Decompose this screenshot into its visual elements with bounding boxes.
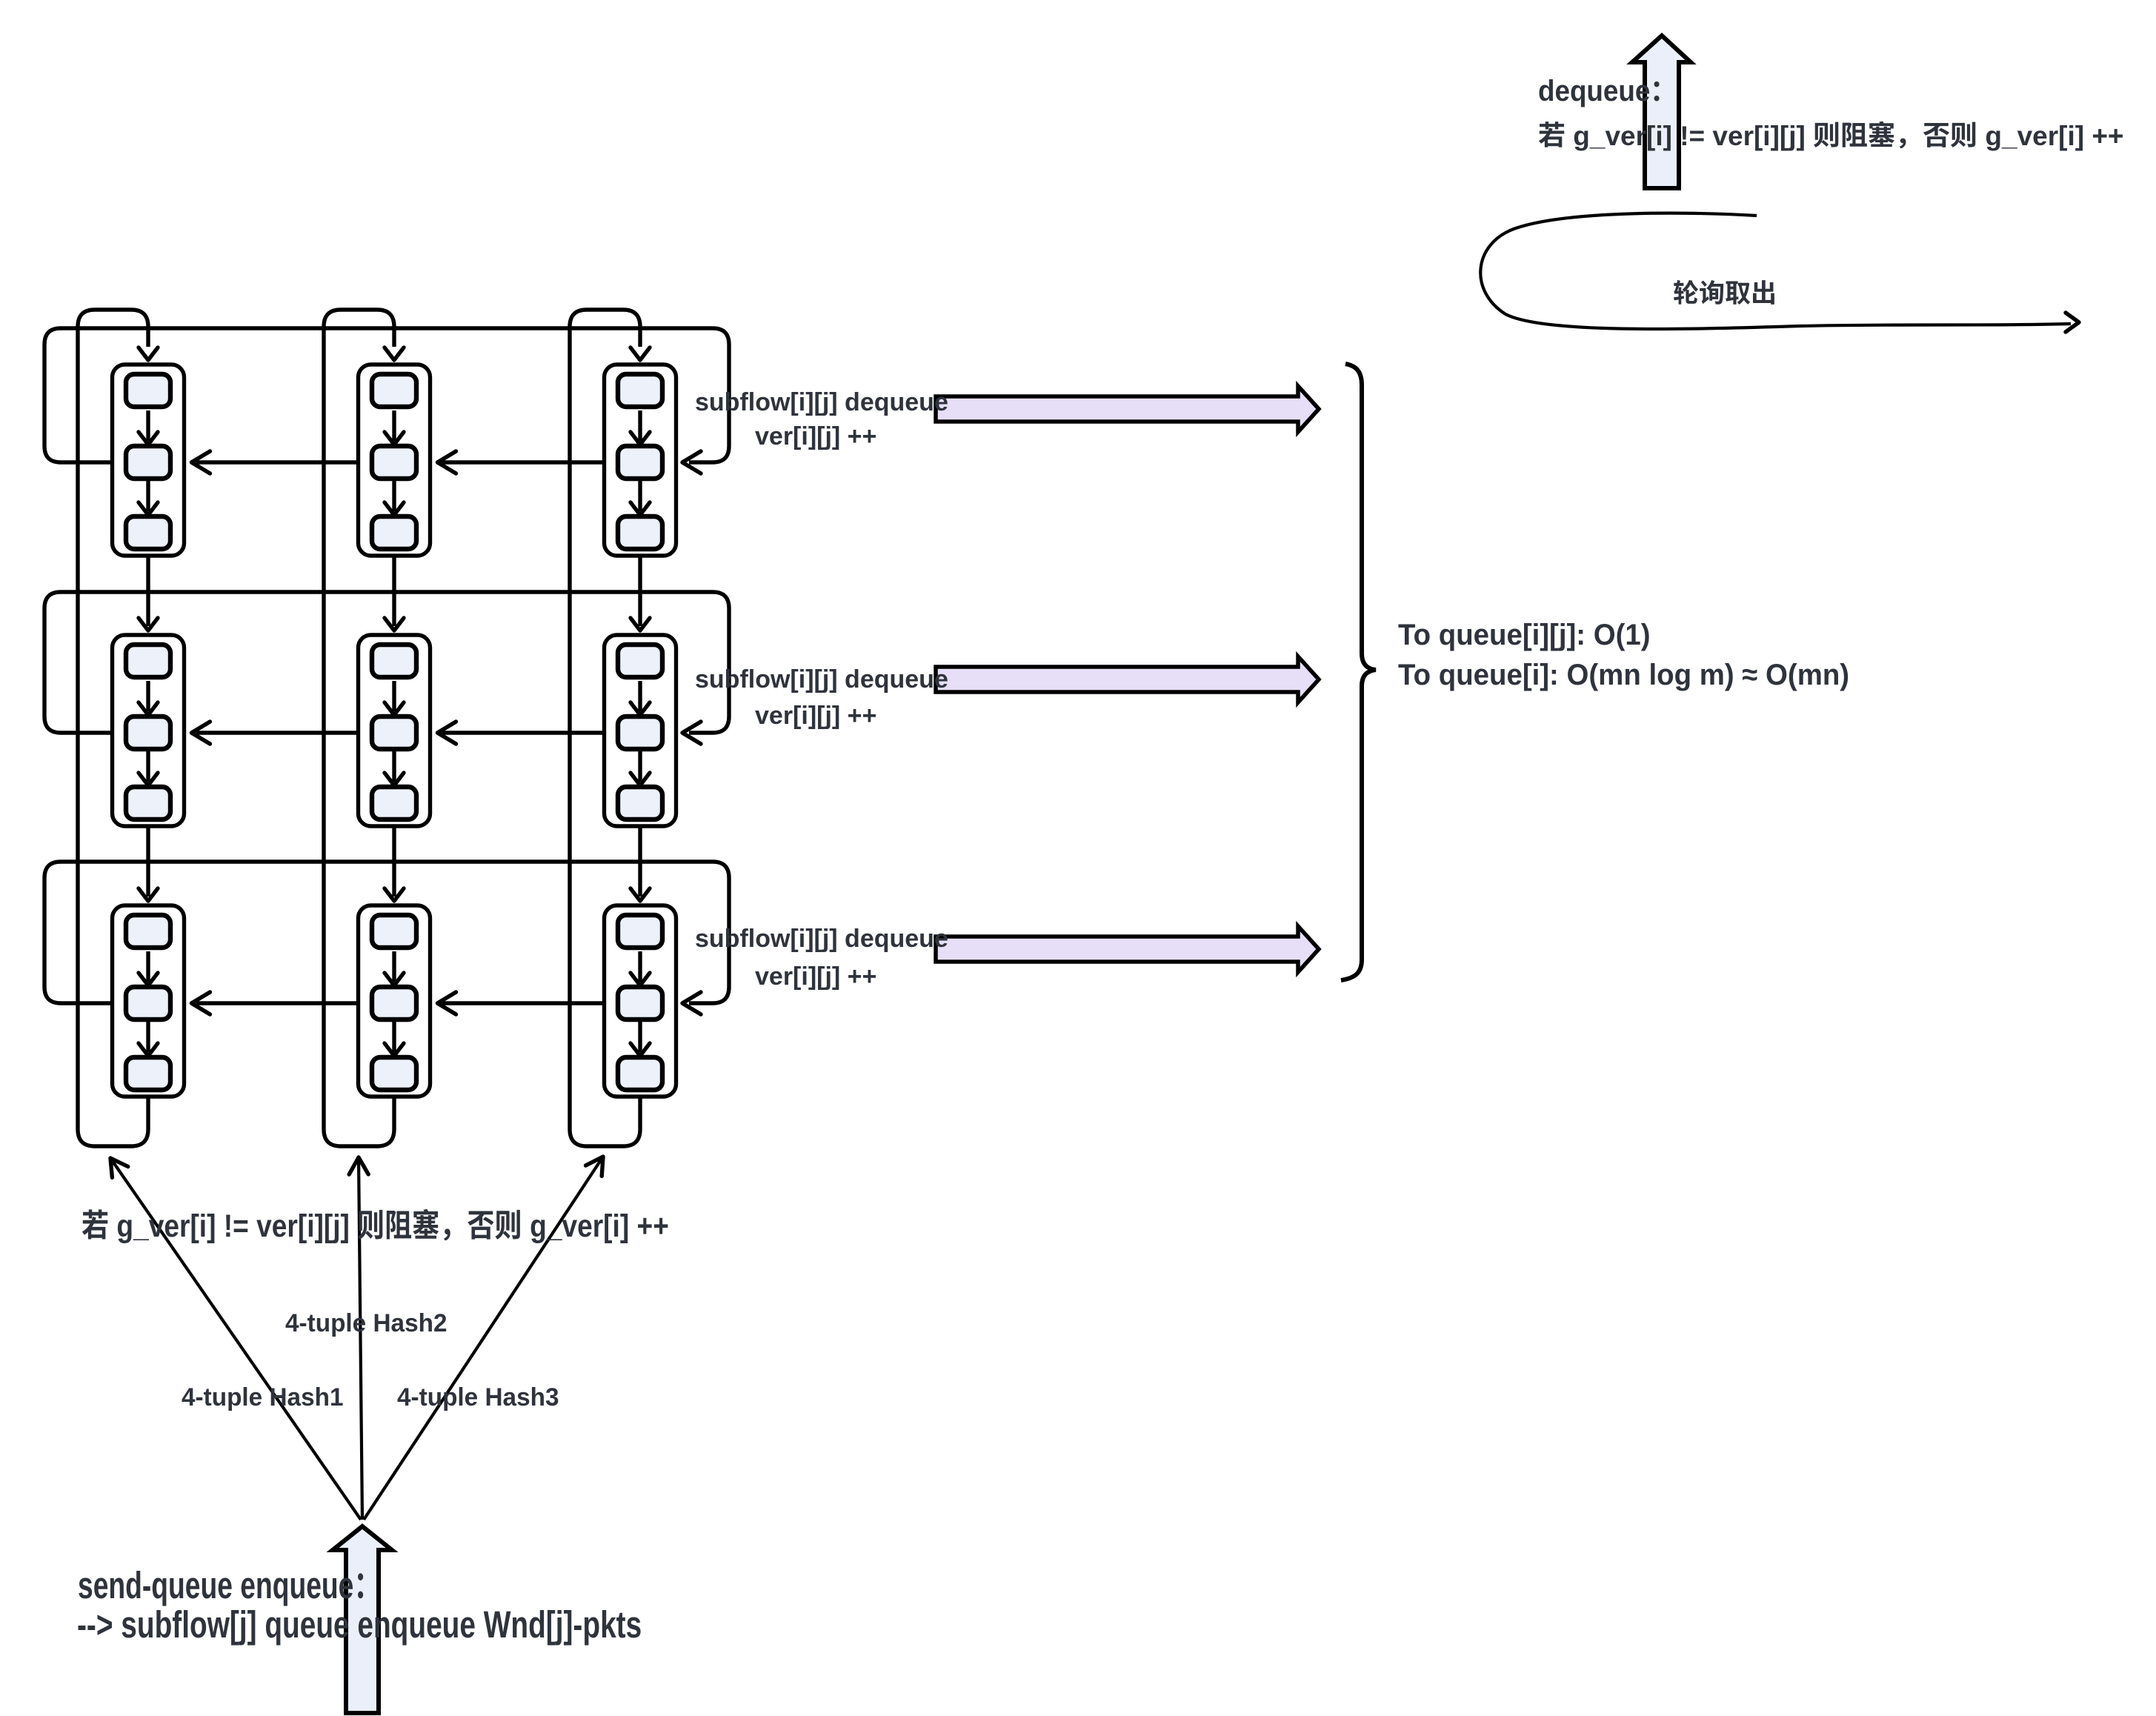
label: version check rule (bottom) <box>81 1208 669 1246</box>
label: ver[1] increment <box>755 701 876 731</box>
label: send-queue enqueue heading <box>78 1563 382 1608</box>
wire: queue[0][2] to queue[0][1] <box>442 460 605 464</box>
label: subflow[1] dequeue <box>695 665 948 694</box>
queue[1][2] node box with 3 packet slots <box>605 635 676 826</box>
arrowhead into queue[0][1] right side <box>438 451 456 473</box>
wire: column 2 feedback loop (queue[2][2] bottom back to queue[0][2] top) <box>570 310 640 1146</box>
arrowhead into queue[1][2] right side <box>682 722 701 744</box>
arrowhead into column 2 loop bottom <box>586 1157 604 1176</box>
queue[2][2] node box with 3 packet slots <box>605 905 676 1097</box>
arrowhead into queue[0][2] right side <box>682 451 701 473</box>
wire: queue[0][0] to queue[1][0] <box>146 556 150 626</box>
label: subflow queue enqueue rule <box>77 1603 642 1647</box>
block arrow: global dequeue (top right, pointing up) <box>1632 36 1691 188</box>
wire: polling round-robin loop arrow <box>1480 213 2071 329</box>
label: subflow[0] dequeue <box>695 388 948 417</box>
wire: queue[1][1] to queue[2][1] <box>392 826 396 897</box>
label: ver[0] increment <box>755 422 876 451</box>
queue[0][2] node box with 3 packet slots <box>605 365 676 556</box>
arrowhead into queue[1][2] top <box>631 618 650 631</box>
label: 4-tuple Hash2 <box>285 1308 447 1338</box>
wire: row 2 feedback loop (queue[2][0] left around to queue[2][2] right) <box>44 862 729 1003</box>
label: 4-tuple Hash1 <box>182 1383 343 1412</box>
block arrow: subflow[2] dequeue output <box>936 926 1319 972</box>
label: global version check rule (top right) <box>1538 120 2124 153</box>
arrowhead into queue[0][0] top <box>139 347 158 360</box>
arrowhead into queue[0][2] top <box>631 347 650 360</box>
wire: column 1 feedback loop (queue[2][1] bottom back to queue[0][1] top) <box>324 310 394 1146</box>
wire: queue[0][2] to queue[1][2] <box>638 556 642 626</box>
arrowhead into queue[1][1] top <box>385 618 404 631</box>
label: 4-tuple Hash3 <box>397 1383 559 1412</box>
arrowhead into queue[2][2] top <box>631 888 650 901</box>
arrowhead into queue[2][2] right side <box>682 992 701 1014</box>
queue[0][0] node box with 3 packet slots <box>113 365 184 556</box>
curly brace grouping the three dequeue arrows <box>1341 364 1376 980</box>
wire: row 0 feedback loop (queue[0][0] left around to queue[0][2] right) <box>44 328 729 462</box>
arrowhead of polling loop <box>2066 313 2079 332</box>
wire: 4-tuple hash2 dispatch line <box>359 1157 362 1520</box>
wire: queue[2][1] to queue[2][0] <box>196 1001 359 1005</box>
wire: queue[2][2] to queue[2][1] <box>442 1001 605 1005</box>
wire: 4-tuple hash3 dispatch line <box>364 1157 603 1520</box>
wire: queue[1][0] to queue[2][0] <box>146 826 150 897</box>
arrowhead into column 1 loop bottom <box>349 1157 368 1174</box>
arrowhead into queue[0][1] top <box>385 347 404 360</box>
arrowhead into column 0 loop bottom <box>110 1158 128 1177</box>
label: ver[2] increment <box>755 962 876 991</box>
block arrow: subflow[0] dequeue output <box>936 386 1319 432</box>
arrowhead into queue[2][1] right side <box>438 992 456 1014</box>
arrowhead into queue[0][0] right side <box>192 451 210 473</box>
label: complexity to queue[i][j] <box>1398 618 1651 653</box>
queue[2][1] node box with 3 packet slots <box>359 905 430 1097</box>
wire: row 1 feedback loop (queue[1][0] left around to queue[1][2] right) <box>44 592 729 733</box>
block arrow: send-queue enqueue (bottom, pointing up) <box>333 1526 392 1713</box>
queue[1][0] node box with 3 packet slots <box>113 635 184 826</box>
wire: queue[1][2] to queue[1][1] <box>442 731 605 734</box>
arrowhead into queue[2][0] right side <box>192 992 210 1014</box>
label: complexity to queue[i] <box>1398 658 1849 693</box>
wire: column 0 feedback loop (queue[2][0] bottom back to queue[0][0] top) <box>78 310 148 1146</box>
wire: queue[0][1] to queue[1][1] <box>392 556 396 626</box>
wire: 4-tuple hash1 dispatch line <box>110 1158 361 1520</box>
wire: queue[1][1] to queue[1][0] <box>196 731 359 734</box>
label: subflow[2] dequeue <box>695 924 948 954</box>
arrowhead into queue[1][1] right side <box>438 722 456 744</box>
label: polling fetch <box>1673 279 1777 309</box>
queue[1][1] node box with 3 packet slots <box>359 635 430 826</box>
label: dequeue heading (top right) <box>1538 74 1677 109</box>
arrowhead into queue[1][0] top <box>139 618 158 631</box>
block arrow: subflow[1] dequeue output <box>936 656 1319 702</box>
arrowhead into queue[2][0] top <box>139 888 158 901</box>
wire: queue[0][1] to queue[0][0] <box>196 460 359 464</box>
arrowhead into queue[2][1] top <box>385 888 404 901</box>
queue[2][0] node box with 3 packet slots <box>113 905 184 1097</box>
wire: queue[1][2] to queue[2][2] <box>638 826 642 897</box>
queue[0][1] node box with 3 packet slots <box>359 365 430 556</box>
arrowhead into queue[1][0] right side <box>192 722 210 744</box>
